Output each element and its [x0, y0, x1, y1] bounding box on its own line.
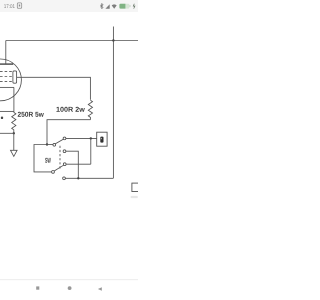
- resistor R1 250R 5w: [12, 112, 16, 133]
- status bar background: [0, 0, 138, 12]
- node dot wire E junction: [77, 177, 79, 179]
- nav home icon: [68, 286, 72, 290]
- wire cathode lead down: [13, 87, 15, 112]
- label R2 value 100R 2w: [56, 107, 84, 112]
- nav back icon: [98, 287, 102, 290]
- resistor R2 100R 2w: [88, 100, 92, 120]
- label fragment below right box: [131, 196, 138, 198]
- wire pole B feed: [47, 144, 53, 146]
- wire to second pole: [34, 145, 52, 172]
- node cathode ground junction dot: [13, 132, 15, 134]
- wire left edge to ground node: [0, 132, 14, 134]
- wire down from box feed: [90, 138, 92, 164]
- box connector right edge (clipped): [132, 183, 146, 191]
- wire left edge to cathode node: [0, 110, 14, 112]
- wire B+ stub up: [112, 27, 114, 41]
- status bar charging mark: [133, 4, 135, 9]
- tube cathode line: [0, 86, 14, 88]
- tube grid 1 (dashed): [0, 70, 13, 72]
- wire top B+ rail: [6, 40, 138, 42]
- label R1 value 250R 5w: [18, 112, 44, 117]
- wire resistor bottom to switch: [47, 120, 90, 145]
- tube plate bar: [0, 63, 13, 65]
- wire contact D: [66, 163, 91, 165]
- tube grid 2 (dashed): [0, 76, 13, 78]
- wire plate lead: [5, 41, 7, 64]
- tube V1 envelope: [0, 59, 21, 101]
- wire contact A to box: [66, 137, 97, 139]
- status bar battery (green): [119, 4, 129, 9]
- nav recents icon: [36, 286, 39, 289]
- status bar wifi icon: [112, 4, 117, 8]
- status bar shield icon: [17, 3, 21, 8]
- tube grid 3 (dashed): [0, 81, 13, 83]
- ground arrow: [13, 133, 15, 150]
- tube grid tab: [13, 71, 17, 83]
- wire contact C down: [66, 151, 78, 178]
- wire long vertical right: [112, 41, 114, 179]
- switch gang dashed link: [59, 146, 61, 170]
- switch contact C: [63, 150, 66, 153]
- switch contact E: [63, 177, 66, 180]
- switch pole contact F: [52, 171, 55, 174]
- nav bar separator: [0, 278, 138, 281]
- node box feed junction dot: [90, 137, 92, 139]
- box connector a: [97, 132, 107, 146]
- box a glyph: [100, 137, 103, 143]
- wire grid out to right: [17, 77, 91, 100]
- node switch pole junction dot: [46, 143, 48, 145]
- node junction dot top rail: [112, 39, 114, 41]
- wire contact E to right vertical: [65, 177, 113, 179]
- switch lever bottom: [54, 165, 63, 171]
- status bar signal triangle: [105, 4, 109, 8]
- status bar clock 17:01: [4, 4, 15, 8]
- switch SW pole contact B: [53, 143, 56, 146]
- switch contact A: [63, 137, 66, 140]
- switch lever top: [55, 139, 63, 144]
- label SW: [45, 158, 51, 163]
- switch contact D: [63, 163, 66, 166]
- status bar bluetooth icon: [100, 3, 103, 8]
- label fragment left edge: [1, 117, 3, 119]
